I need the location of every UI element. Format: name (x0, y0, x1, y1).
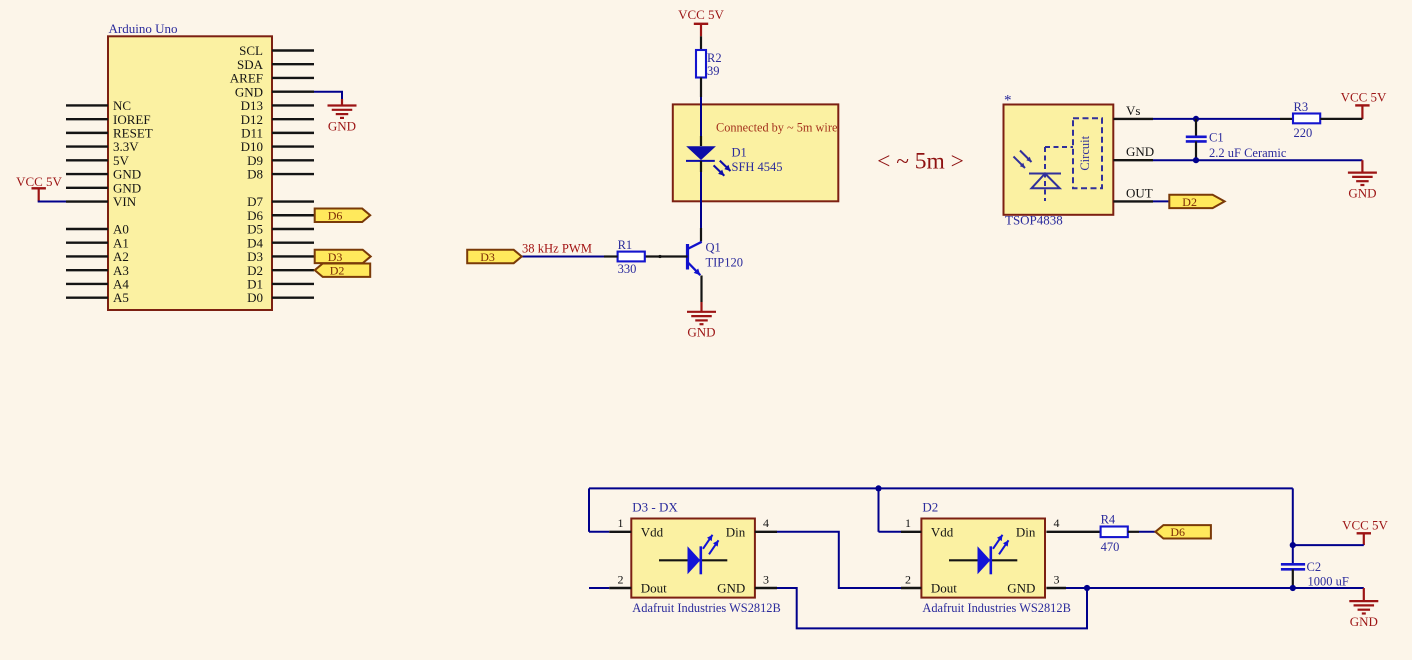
ground GND (TSOP) (1348, 173, 1377, 201)
resistor R4 (1101, 513, 1128, 554)
svg-text:D3: D3 (480, 250, 495, 264)
svg-text:TSOP4838: TSOP4838 (1005, 213, 1063, 228)
net flag D2 (Arduino) (315, 263, 371, 277)
svg-text:R4: R4 (1101, 513, 1116, 527)
svg-text:TIP120: TIP120 (706, 256, 744, 270)
wire Arduino left pin stubs (66, 105, 108, 297)
svg-text:*: * (1004, 93, 1012, 109)
svg-text:GND: GND (717, 581, 745, 596)
Arduino right pin names (230, 43, 264, 305)
svg-text:GND: GND (1126, 144, 1154, 159)
svg-text:VCC 5V: VCC 5V (1342, 518, 1388, 533)
svg-text:C1: C1 (1209, 130, 1224, 144)
wire GND net to ground (1293, 588, 1364, 601)
svg-text:Vs: Vs (1126, 103, 1140, 118)
junction C2 / GND net (1290, 585, 1296, 591)
net flag D3 (PWM source) (467, 250, 522, 264)
svg-text:GND: GND (1348, 186, 1376, 201)
svg-text:D1: D1 (732, 146, 747, 160)
pin numbers left WS2812B (618, 516, 770, 586)
ground GND (C2) (1349, 601, 1378, 629)
wire Arduino GND to ground (314, 92, 342, 106)
svg-text:1000 uF: 1000 uF (1308, 575, 1349, 589)
svg-text:D3 - DX: D3 - DX (632, 500, 678, 515)
wire rail to D2 Vdd (pin 1) (879, 531, 922, 533)
svg-text:Din: Din (726, 524, 746, 539)
junction rail/D2 Vdd (875, 485, 881, 491)
svg-text:Q1: Q1 (706, 241, 721, 255)
svg-text:Dout: Dout (641, 581, 667, 596)
net flag D3 (Arduino) (315, 250, 371, 264)
LED D1 SFH 4545 (686, 146, 783, 176)
pin numbers right WS2812B (905, 516, 1060, 586)
svg-text:Dout: Dout (931, 581, 957, 596)
ground GND (Arduino) (328, 106, 357, 134)
wire R4 to D6 flag (1128, 531, 1156, 533)
svg-text:OUT: OUT (1126, 185, 1153, 200)
wire rail to D3-DX Vdd (pin 1) (589, 531, 631, 533)
IC TSOP4838 body (1004, 93, 1114, 228)
net flag D6 (to LEDs) (1155, 525, 1211, 539)
Arduino left pin names (113, 98, 153, 305)
wire VCC to R2 (700, 36, 702, 50)
wire D3 flag to R1 (522, 256, 618, 258)
svg-text:D3: D3 (328, 250, 343, 264)
svg-text:< ~ 5m >: < ~ 5m > (877, 149, 964, 175)
svg-text:GND: GND (687, 325, 715, 340)
svg-text:4: 4 (1054, 516, 1060, 530)
svg-text:R3: R3 (1294, 100, 1309, 114)
resistor R3 (1293, 100, 1320, 140)
power flag VCC 5V (R3) (1341, 90, 1387, 119)
svg-text:330: 330 (618, 262, 637, 276)
wire TSOP OUT to D2 flag (1113, 200, 1169, 202)
junction GND/C1 (1193, 157, 1199, 163)
svg-text:Adafruit Industries WS2812B: Adafruit Industries WS2812B (632, 601, 780, 615)
power flag VCC 5V (R2) (678, 7, 724, 36)
wire D3-DX Dout (pin 2) stub (589, 587, 631, 589)
svg-text:1: 1 (618, 516, 624, 530)
svg-text:R2: R2 (707, 51, 722, 65)
svg-text:D6: D6 (328, 209, 343, 223)
svg-text:Din: Din (1016, 524, 1036, 539)
svg-text:GND: GND (1350, 614, 1378, 629)
svg-text:D8: D8 (247, 167, 263, 182)
svg-text:D2: D2 (1182, 195, 1197, 209)
net flag D2 (TSOP OUT) (1169, 195, 1224, 209)
svg-text:A5: A5 (113, 290, 129, 305)
power flag VCC 5V at VIN (16, 174, 62, 202)
svg-text:3: 3 (1054, 572, 1060, 586)
junction Vs/C1 (1193, 116, 1199, 122)
wire TSOP GND net (1113, 160, 1362, 172)
svg-text:Vdd: Vdd (931, 524, 954, 539)
svg-text:4: 4 (763, 516, 769, 530)
svg-text:Vdd: Vdd (641, 524, 664, 539)
svg-text:SFH 4545: SFH 4545 (732, 160, 783, 174)
transistor Q1 TIP120 (688, 241, 744, 276)
svg-text:38 kHz PWM: 38 kHz PWM (522, 242, 592, 256)
svg-text:D0: D0 (247, 290, 263, 305)
IC Arduino Uno body (108, 21, 272, 310)
svg-text:VCC 5V: VCC 5V (678, 7, 724, 22)
svg-text:D6: D6 (1170, 525, 1185, 539)
svg-text:GND: GND (1007, 581, 1035, 596)
svg-text:Arduino Uno: Arduino Uno (109, 21, 178, 36)
net flag D6 (Arduino) (315, 209, 371, 223)
svg-text:C2: C2 (1307, 560, 1322, 574)
svg-text:2.2 uF Ceramic: 2.2 uF Ceramic (1209, 146, 1287, 160)
wire Q1 base (645, 255, 688, 258)
svg-text:2: 2 (618, 572, 624, 586)
wire D2 Din (pin 4) to R4 (1046, 531, 1100, 533)
svg-text:39: 39 (707, 64, 720, 78)
svg-text:Circuit: Circuit (1078, 135, 1092, 170)
wire VCC tap to rail (1293, 544, 1364, 546)
wire D3-DX GND (pin 3) to GND net (755, 588, 1087, 628)
annotation box: Connected by ~ 5m wire (673, 104, 839, 201)
svg-text:220: 220 (1294, 126, 1313, 140)
TSOP internal circuit dashed box (1073, 118, 1102, 188)
svg-text:Adafruit Industries WS2812B: Adafruit Industries WS2812B (922, 601, 1070, 615)
svg-text:R1: R1 (618, 238, 633, 252)
IC WS2812B D3 - DX (631, 500, 780, 616)
svg-text:1: 1 (905, 516, 911, 530)
TSOP photodiode (1014, 147, 1074, 201)
svg-text:VCC 5V: VCC 5V (1341, 90, 1387, 105)
wire D2 GND (pin 3) to C2/GND net (1046, 587, 1292, 589)
wire VCC to R3 (1320, 118, 1362, 120)
wire D3-DX Din (pin 4) to D2 Dout (pin 2) (755, 532, 922, 588)
capacitor C1 (1186, 119, 1287, 160)
power flag VCC 5V (C2) (1342, 518, 1388, 546)
junction bottom rail / GND net (1084, 585, 1090, 591)
wire VIN to VCC (38, 201, 66, 203)
svg-text:D2: D2 (922, 500, 938, 515)
svg-text:GND: GND (328, 119, 356, 134)
resistor R1 (618, 238, 645, 276)
svg-text:470: 470 (1101, 540, 1120, 554)
svg-text:D2: D2 (330, 264, 345, 278)
wire R2 to D1 (700, 78, 702, 147)
junction VCC tap (1290, 542, 1296, 548)
wire D1 to Q1 collector (700, 161, 702, 242)
wire VCC rail (top) (589, 488, 1293, 564)
resistor R2 (696, 50, 722, 78)
svg-text:Connected by ~ 5m wire: Connected by ~ 5m wire (716, 121, 838, 135)
wire Arduino right pin stubs (272, 51, 314, 298)
capacitor C2 (1281, 560, 1349, 589)
svg-text:3: 3 (763, 572, 769, 586)
svg-text:2: 2 (905, 572, 911, 586)
svg-text:VCC 5V: VCC 5V (16, 174, 62, 189)
wire TSOP Vs to R3 (1113, 118, 1293, 120)
IC WS2812B D2 (921, 500, 1070, 616)
ground GND (Q1) (687, 312, 716, 340)
svg-text:VIN: VIN (113, 194, 137, 209)
wire Q1 emitter to ground (700, 276, 702, 312)
